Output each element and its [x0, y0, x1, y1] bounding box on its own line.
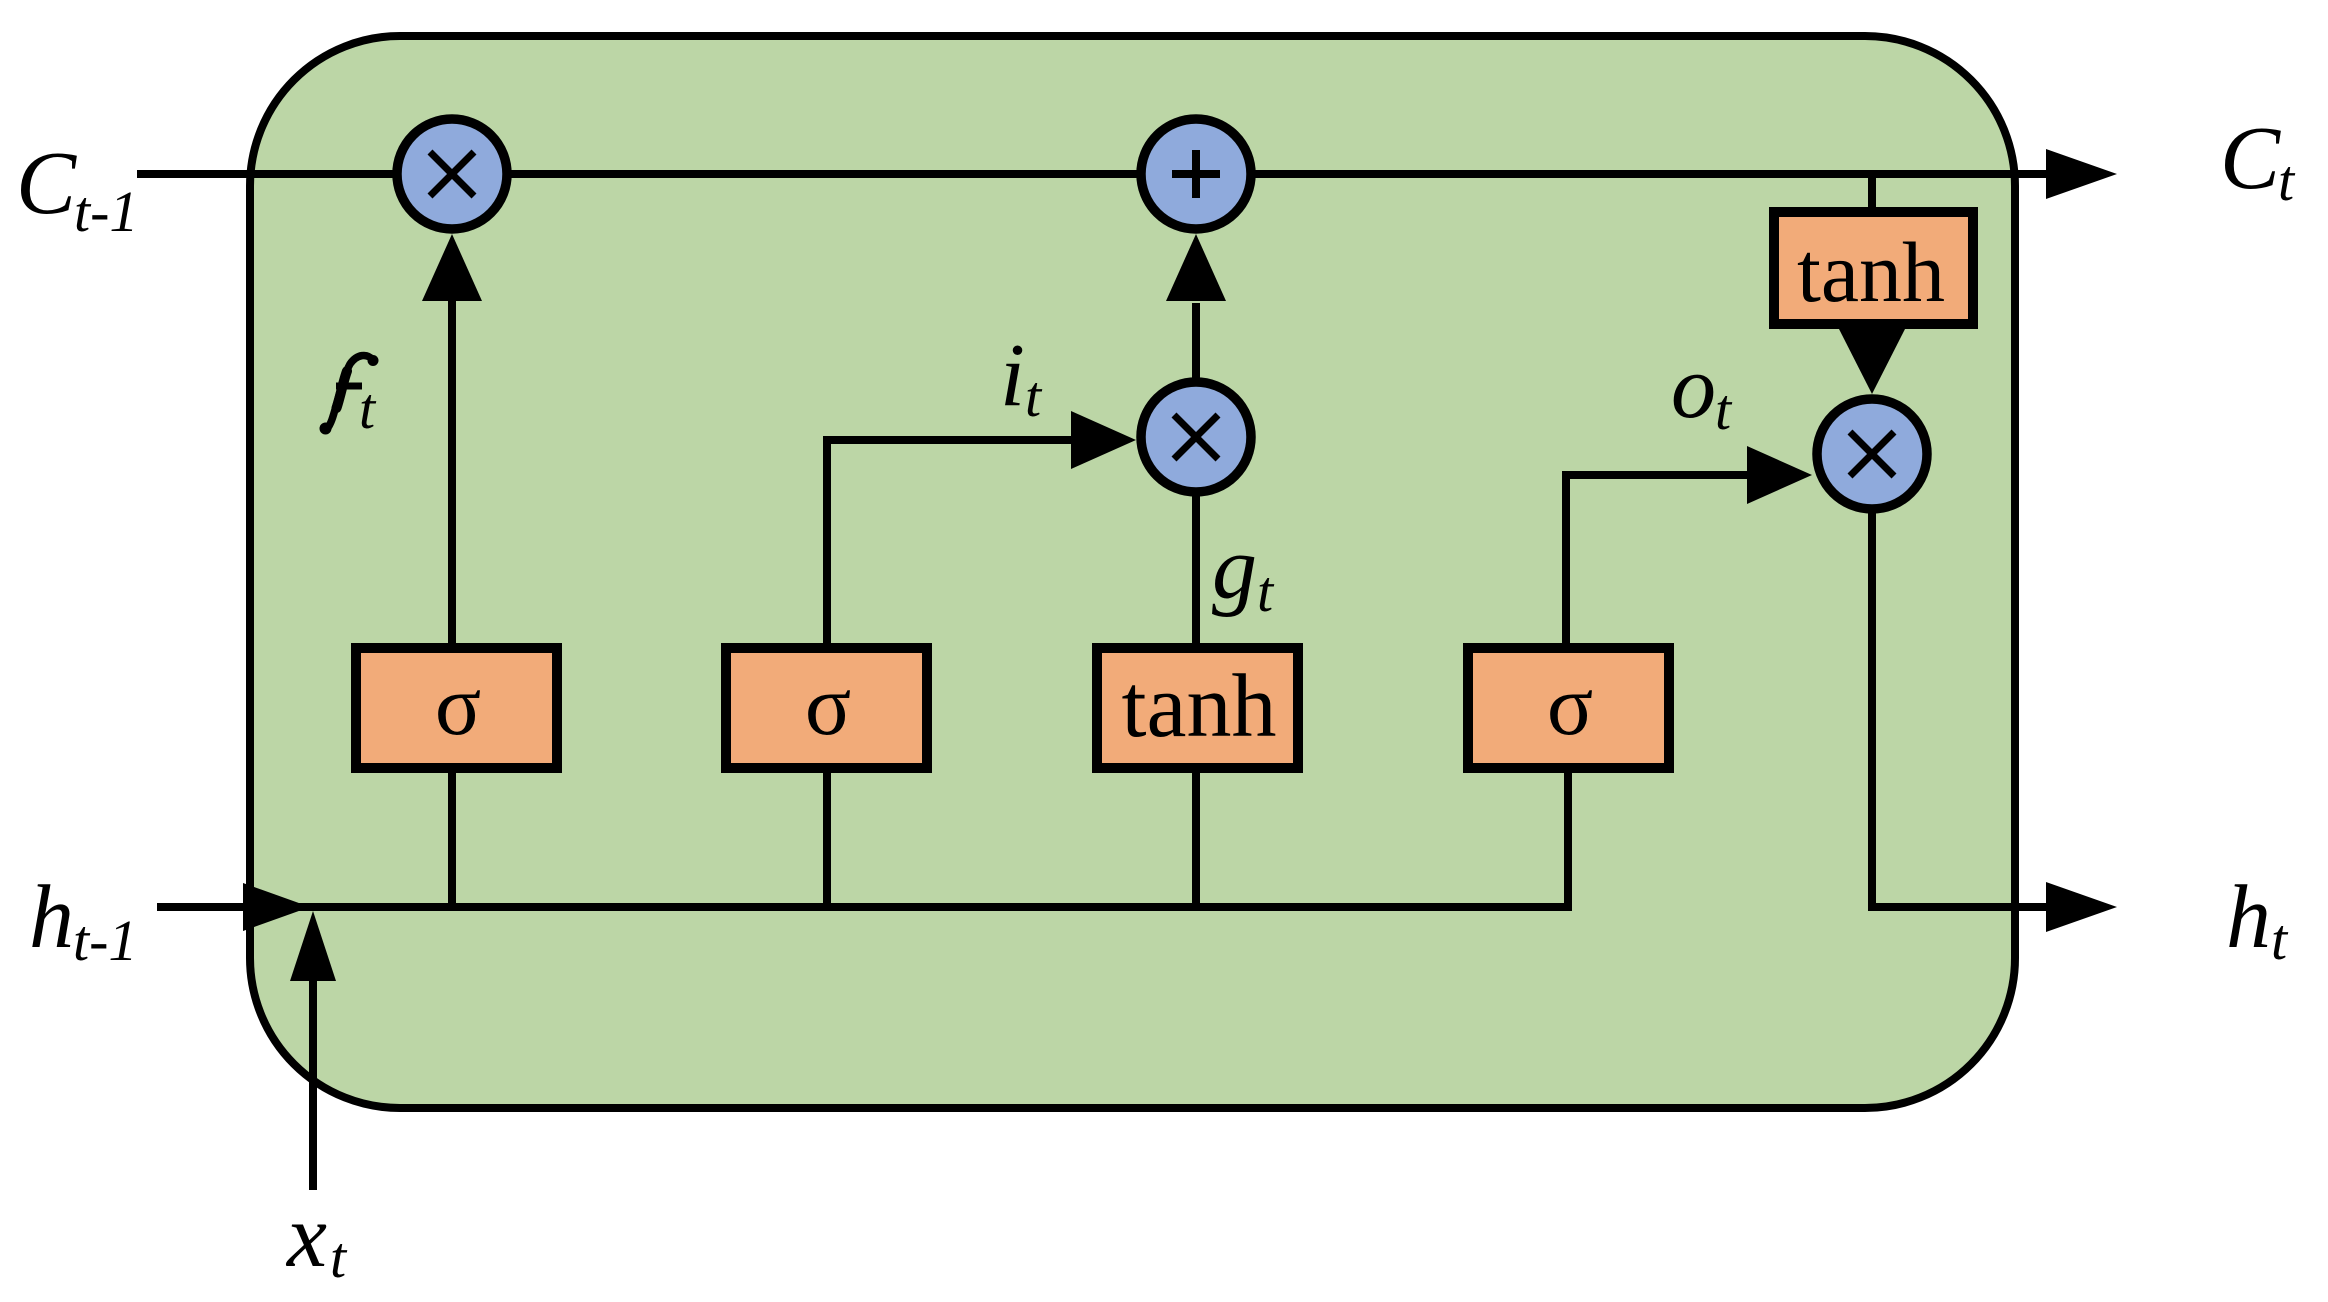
wire h line with riser to sigma output	[157, 764, 1568, 907]
svg-text:t-1: t-1	[74, 179, 138, 244]
svg-text:t-1: t-1	[73, 908, 137, 973]
sigma box input gate	[726, 648, 927, 768]
wire g_t from tanh box to input multiply	[1192, 494, 1200, 650]
svg-text:t: t	[330, 1225, 348, 1290]
wire cell-state line C	[137, 170, 2046, 178]
svg-text:σ: σ	[1547, 657, 1593, 753]
tanh box output branch	[1774, 212, 1973, 324]
svg-text:h: h	[29, 868, 74, 967]
svg-text:C: C	[2220, 109, 2281, 208]
svg-text:tanh: tanh	[1797, 224, 1945, 320]
svg-text:i: i	[1000, 326, 1025, 425]
LSTM cell body	[250, 36, 2015, 1108]
svg-text:o: o	[1671, 338, 1716, 437]
wire from C line down into output tanh box	[1868, 176, 1876, 215]
wire x_t input arrow	[290, 911, 336, 1190]
wire output multiply down to h_t exit	[1872, 505, 2117, 932]
svg-text:C: C	[16, 134, 77, 233]
svg-text:t: t	[1715, 377, 1733, 442]
tanh box candidate gate	[1097, 648, 1298, 768]
wire arrow from input multiply into add node	[1166, 234, 1226, 378]
multiply node input gate	[1141, 382, 1251, 492]
arrowhead h_{t-1} input	[243, 883, 310, 931]
svg-text:σ: σ	[435, 657, 481, 753]
svg-text:tanh: tanh	[1122, 657, 1277, 756]
svg-text:σ: σ	[805, 657, 851, 753]
svg-text:t: t	[2278, 148, 2296, 213]
svg-text:g: g	[1212, 519, 1257, 618]
sigma box output gate	[1468, 648, 1669, 768]
wire o_t from sigma output gate to output multiply	[1566, 446, 1812, 650]
wire label f_t	[320, 355, 379, 435]
svg-text:h: h	[2226, 868, 2271, 967]
wire i_t from sigma input gate to input multiply	[827, 411, 1136, 650]
wire riser tanh candidate to h line	[1192, 764, 1200, 907]
wire f_t arrow into forget multiply	[422, 234, 482, 650]
svg-text:x: x	[285, 1187, 327, 1286]
wire riser sigma forget to h line	[448, 764, 456, 907]
svg-text:t: t	[1025, 364, 1043, 429]
multiply node forget gate	[397, 119, 507, 229]
wire riser sigma input to h line	[823, 764, 831, 907]
arrowhead from tanh box into output multiply	[1839, 329, 1905, 394]
svg-text:t: t	[2271, 907, 2289, 972]
arrowhead C_t output	[2046, 149, 2117, 199]
svg-text:t: t	[1257, 559, 1275, 624]
multiply node output gate	[1817, 399, 1927, 509]
add node	[1141, 119, 1251, 229]
sigma box forget gate	[356, 648, 557, 768]
svg-text:t: t	[359, 376, 377, 441]
